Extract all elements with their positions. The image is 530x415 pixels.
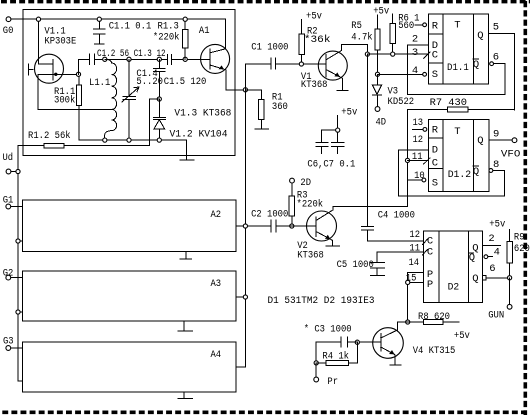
capacitor C2 [245, 208, 291, 232]
svg-text:Q: Q [477, 30, 483, 42]
svg-text:Pr: Pr [327, 376, 338, 388]
svg-text:Q: Q [477, 135, 483, 147]
node junction C1.5 top [157, 57, 161, 61]
svg-text:C6,C7 0.1: C6,C7 0.1 [307, 158, 355, 170]
wire D pin feedback D1.2 [398, 150, 504, 196]
svg-text:14: 14 [409, 257, 420, 269]
svg-text:6: 6 [493, 52, 499, 64]
svg-text:10: 10 [414, 170, 425, 182]
svg-text:11: 11 [409, 242, 420, 254]
resistor R1 [245, 90, 288, 129]
wire Q2 output [482, 244, 500, 246]
transistor V4 KT315 [357, 322, 455, 365]
svg-text:8: 8 [493, 159, 499, 171]
amplifier A4 [23, 342, 236, 392]
pin numbers D1.2 [412, 117, 499, 182]
svg-text:+5v: +5v [373, 5, 389, 17]
svg-text:C4 1000: C4 1000 [378, 209, 415, 221]
node junction R6 [391, 52, 395, 56]
transistor V2 KT368 [292, 206, 340, 261]
ground tank [180, 140, 194, 160]
flip-flop D1.1 [424, 14, 489, 84]
svg-text:C: C [427, 246, 433, 258]
svg-text:KT368: KT368 [297, 250, 324, 262]
svg-text:S: S [432, 177, 438, 189]
node junction C1.1 [97, 17, 101, 21]
wire emitter bus down [236, 90, 246, 367]
capacitor C7 [307, 130, 355, 170]
transistor V1 KT368 [301, 45, 368, 91]
node junction source [76, 72, 80, 76]
power +5v R2 [302, 10, 322, 34]
svg-text:D1 531TM2 D2 193IE3: D1 531TM2 D2 193IE3 [268, 295, 375, 307]
diode V1.2 KV104 varicap [154, 99, 228, 140]
transistor V1.1 KP303E [29, 19, 112, 109]
wire R pin D1.2 [413, 127, 427, 131]
svg-text:+5v: +5v [306, 10, 322, 22]
terminal 4D [375, 107, 386, 129]
power +5v R8 [454, 330, 470, 342]
svg-text:R4 1k: R4 1k [322, 350, 349, 362]
node junction A2 bias [16, 239, 20, 243]
capacitor C4 [362, 54, 424, 241]
capacitor C1.1 [94, 19, 152, 44]
svg-text:P: P [427, 279, 433, 291]
node junction C1.4 top [127, 57, 131, 61]
node junction L1.1 top [103, 57, 107, 61]
svg-text:Ud: Ud [3, 152, 14, 164]
resistor R8 [408, 311, 460, 325]
svg-text:V1.2 KV104: V1.2 KV104 [170, 128, 228, 140]
node junction V4 base [355, 340, 359, 344]
svg-text:R5: R5 [351, 20, 362, 32]
wire R pin D1.1 [415, 23, 427, 27]
wire Ud bias line [18, 146, 23, 381]
capacitor C5 [337, 252, 424, 275]
border bottom dashed [2, 410, 530, 414]
ground A2 [180, 252, 192, 260]
resistor R9 [507, 232, 530, 278]
svg-text:360: 360 [272, 101, 288, 113]
svg-text:620: 620 [514, 243, 530, 255]
svg-text:A1: A1 [199, 25, 210, 37]
svg-text:C1 1000: C1 1000 [251, 41, 288, 53]
node junction R4 [314, 361, 318, 365]
capacitor C1.5 [154, 59, 207, 99]
terminal G3 [3, 336, 23, 351]
ground A3 [178, 321, 193, 331]
svg-text:11: 11 [412, 151, 423, 163]
svg-text:GUN: GUN [488, 309, 504, 321]
ground A4 [178, 392, 193, 398]
svg-text:2D: 2D [300, 177, 311, 189]
wire S pin D1.2 [408, 178, 426, 182]
svg-text:300k: 300k [54, 95, 75, 107]
resistor R1.3 [153, 19, 188, 59]
pin numbers D1.1 [412, 22, 499, 78]
resistor R1.2 [18, 130, 150, 148]
svg-text:KT368: KT368 [301, 79, 328, 91]
node junction base A1 [183, 57, 187, 61]
svg-text:C1.1 0.1: C1.1 0.1 [109, 21, 152, 33]
svg-text:R: R [432, 20, 439, 32]
svg-text:Q: Q [473, 166, 479, 178]
node junction V1.2 bottom [157, 138, 161, 142]
node junction P15 [406, 280, 410, 284]
terminal Ud [3, 152, 17, 174]
node junction drain [36, 17, 40, 21]
node junction C1.4 bottom [127, 138, 131, 142]
inductor L1.1 [89, 59, 117, 140]
node junction V2 base [290, 224, 294, 228]
wire Q9 output VFO [489, 138, 520, 161]
svg-text:9: 9 [493, 129, 499, 141]
label V1.3 [174, 108, 231, 120]
capacitor C1.4 trimmer [122, 59, 163, 140]
svg-text:*36k: *36k [304, 34, 331, 46]
pin numbers D2 [406, 229, 500, 285]
capacitor C1.2 [79, 48, 166, 74]
node junction C2 [243, 224, 247, 228]
svg-text:Q: Q [472, 273, 478, 285]
svg-text:V4 KT315: V4 KT315 [413, 345, 456, 357]
svg-text:Q: Q [469, 252, 475, 264]
wire R7 riser [407, 110, 409, 206]
svg-text:6: 6 [489, 263, 495, 275]
svg-text:4D: 4D [376, 117, 387, 129]
wire G0 rail to A1 collector [11, 19, 226, 49]
svg-text:T: T [454, 126, 460, 138]
node junction L1.1 bottom [103, 138, 107, 142]
svg-text:A3: A3 [211, 278, 222, 290]
diode V3 KD522 [372, 74, 414, 108]
svg-text:VFO: VFO [501, 148, 521, 160]
terminal G1 [3, 195, 23, 209]
node junction R1.3 top [183, 17, 187, 21]
svg-text:4: 4 [494, 247, 500, 259]
node junction C11 [405, 158, 409, 162]
svg-text:4.7k: 4.7k [351, 31, 372, 43]
svg-text:* C3 1000: * C3 1000 [304, 323, 352, 335]
svg-text:2: 2 [412, 34, 418, 46]
terminal GUN [488, 278, 512, 322]
svg-text:*220k: *220k [297, 198, 324, 210]
node junction C7 top [336, 128, 340, 132]
svg-text:R1.2 56k: R1.2 56k [28, 130, 71, 142]
svg-text:C: C [432, 158, 438, 170]
wire D pin feedback D1.1 [408, 45, 506, 95]
border top dashed [1, 0, 530, 3]
wire A2 output [236, 225, 246, 227]
wire tank bottom rail [79, 139, 186, 141]
svg-text:13: 13 [413, 117, 424, 129]
svg-text:R9: R9 [514, 232, 525, 244]
wire A3 output [236, 296, 246, 298]
node junction A1 emitter [243, 88, 247, 92]
wire C pin D1.2 [408, 159, 429, 161]
svg-text:A4: A4 [211, 349, 222, 361]
capacitor C1.3 [168, 54, 172, 64]
svg-text:C: C [432, 50, 438, 62]
svg-text:+5v: +5v [489, 219, 505, 231]
capacitor C6 [316, 130, 338, 153]
node junction A3 out [243, 295, 247, 299]
wire S pin D1.1 [378, 72, 427, 76]
svg-text:4: 4 [412, 65, 418, 77]
node junction V1 base [299, 62, 303, 66]
label chips D1 D2 [268, 295, 375, 307]
svg-text:R: R [432, 125, 439, 137]
svg-text:KP303E: KP303E [44, 35, 76, 47]
svg-text:KD522: KD522 [388, 96, 415, 108]
terminal Pr [314, 363, 338, 388]
node junction S net [375, 72, 379, 76]
wire P pins D2 [408, 272, 424, 322]
resistor R1.1 [54, 74, 82, 140]
svg-text:+5v: +5v [341, 106, 357, 118]
svg-text:D1.1: D1.1 [447, 62, 469, 74]
svg-text:D1.2: D1.2 [448, 169, 472, 181]
wire Q4 output [484, 255, 493, 259]
svg-text:12: 12 [413, 134, 424, 146]
svg-text:S: S [432, 69, 438, 81]
capacitor C1 [245, 41, 326, 89]
counter D2 [423, 231, 487, 302]
wire Q6 output [486, 277, 509, 279]
amplifier A3 [23, 271, 236, 321]
node junction varicap [157, 97, 161, 101]
wire tank top rail [105, 58, 210, 60]
svg-text:3: 3 [412, 47, 418, 59]
wire clock to D1.1 C [367, 53, 428, 55]
svg-text:C2 1000: C2 1000 [251, 208, 288, 220]
resistor R2 [299, 25, 331, 64]
svg-text:R7 430: R7 430 [430, 97, 467, 109]
svg-text:2: 2 [488, 233, 494, 245]
svg-text:12: 12 [409, 229, 420, 241]
resistor R6 [390, 12, 419, 54]
power +5v C6 C7 [338, 106, 358, 130]
power +5v R5 [373, 5, 389, 29]
svg-text:5: 5 [493, 22, 499, 34]
terminal 2D [290, 177, 311, 189]
svg-text:C1.5 120: C1.5 120 [164, 76, 207, 88]
svg-text:*220k: *220k [153, 32, 180, 44]
wire V2 collector to C4 [333, 205, 408, 207]
resistor R5 [351, 20, 380, 74]
svg-text:V1.3 KT368: V1.3 KT368 [174, 108, 231, 120]
flip-flop D1.2 [424, 120, 490, 192]
svg-text:Q: Q [473, 59, 479, 71]
amplifier A2 [23, 200, 236, 252]
svg-text:C5 1000: C5 1000 [337, 259, 374, 271]
node junction Ud [16, 169, 20, 173]
resistor R3 [289, 183, 323, 226]
svg-text:D: D [432, 145, 438, 157]
svg-text:+5v: +5v [454, 330, 470, 342]
wire Q5 output [489, 33, 515, 110]
node junction R9 bottom [508, 276, 512, 280]
shield box A1 [23, 9, 235, 155]
capacitor C3 [304, 323, 358, 363]
svg-text:T: T [454, 20, 460, 32]
resistor R7 [408, 97, 515, 112]
border right dashed [523, 1, 527, 415]
svg-text:G0: G0 [3, 25, 14, 37]
svg-text:A2: A2 [211, 209, 222, 221]
terminal G0 [3, 17, 14, 37]
svg-text:D2: D2 [448, 282, 460, 294]
svg-text:L1.1: L1.1 [89, 77, 110, 89]
transistor A1 V1.3 [201, 44, 246, 89]
node junction A3 bias [16, 310, 20, 314]
resistor R4 [316, 342, 357, 365]
power +5v R9 [489, 219, 509, 242]
node junction clock [365, 52, 369, 56]
svg-text:560: 560 [398, 20, 414, 32]
svg-text:R8 620: R8 620 [418, 311, 450, 323]
wire R1.2 riser [150, 99, 160, 146]
terminal G2 [3, 268, 23, 280]
node junction V4 collector [406, 320, 410, 324]
